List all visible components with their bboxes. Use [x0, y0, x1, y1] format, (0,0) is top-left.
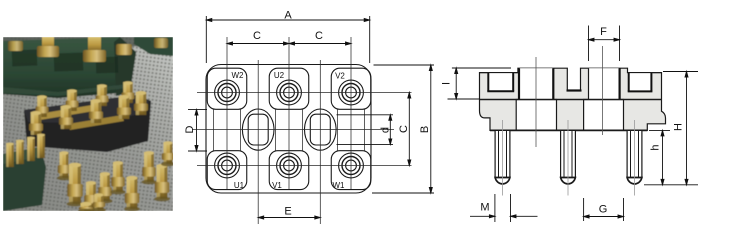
svg-text:M: M [480, 202, 489, 214]
svg-text:H: H [672, 123, 684, 131]
top view: center mounting holes (obround) [242, 109, 336, 150]
side view: boss A interior (white) [519, 68, 553, 99]
side view: right top recess [628, 73, 653, 92]
svg-text:C: C [253, 30, 261, 42]
dimension d [337, 115, 394, 145]
svg-text:D: D [184, 125, 196, 133]
photo of terminal blocks [3, 37, 175, 213]
top view: terminal bosses [207, 68, 371, 189]
top view: connecting ribs between bosses [214, 109, 365, 150]
side view: body cross-section silhouette [480, 68, 666, 130]
svg-text:h: h [650, 144, 662, 150]
top view: centerlines [192, 37, 412, 224]
svg-text:d: d [380, 127, 392, 133]
svg-text:G: G [599, 204, 608, 216]
side view: lower window left (white opening) [516, 100, 556, 131]
dimension h [649, 130, 670, 184]
top view: terminal labels [232, 71, 346, 190]
side view: left top recess [487, 73, 514, 92]
svg-text:I: I [441, 82, 453, 85]
dimension M [470, 194, 538, 222]
dimension C (vertical pitch) [408, 93, 411, 166]
svg-text:A: A [284, 10, 292, 22]
svg-text:U1: U1 [234, 181, 245, 190]
svg-text:B: B [419, 126, 431, 133]
svg-text:C: C [315, 30, 323, 42]
dimension H [644, 72, 698, 185]
side view: boss B opening (F slot) [589, 68, 619, 99]
top view: terminal circles W2 U2 V2 U1 V1 W1 [215, 80, 364, 178]
dimension C C (horizontal pitch) [227, 42, 351, 45]
svg-text:W1: W1 [333, 181, 346, 190]
dimension G [584, 198, 624, 221]
svg-text:C: C [398, 125, 410, 133]
svg-text:V1: V1 [272, 181, 282, 190]
svg-text:F: F [600, 26, 607, 38]
dimension I [448, 68, 512, 99]
svg-text:V2: V2 [335, 72, 345, 81]
dimension A [206, 16, 369, 63]
svg-text:U2: U2 [274, 71, 285, 80]
svg-text:W2: W2 [232, 71, 245, 80]
svg-text:E: E [284, 206, 291, 218]
side view: boss centerlines [535, 57, 537, 147]
dimension E [258, 216, 320, 219]
top view: terminal block body outline [206, 65, 371, 194]
side view: notch bottom thick line [567, 89, 582, 91]
side view: body bottom edge (thick) [490, 129, 647, 131]
side view: lower window right (white opening) [584, 100, 624, 131]
dimension D [188, 110, 207, 151]
dimension F [589, 26, 620, 62]
dimension B [372, 65, 434, 193]
side view: terminal pins [495, 120, 510, 196]
side view: step line [480, 99, 661, 101]
